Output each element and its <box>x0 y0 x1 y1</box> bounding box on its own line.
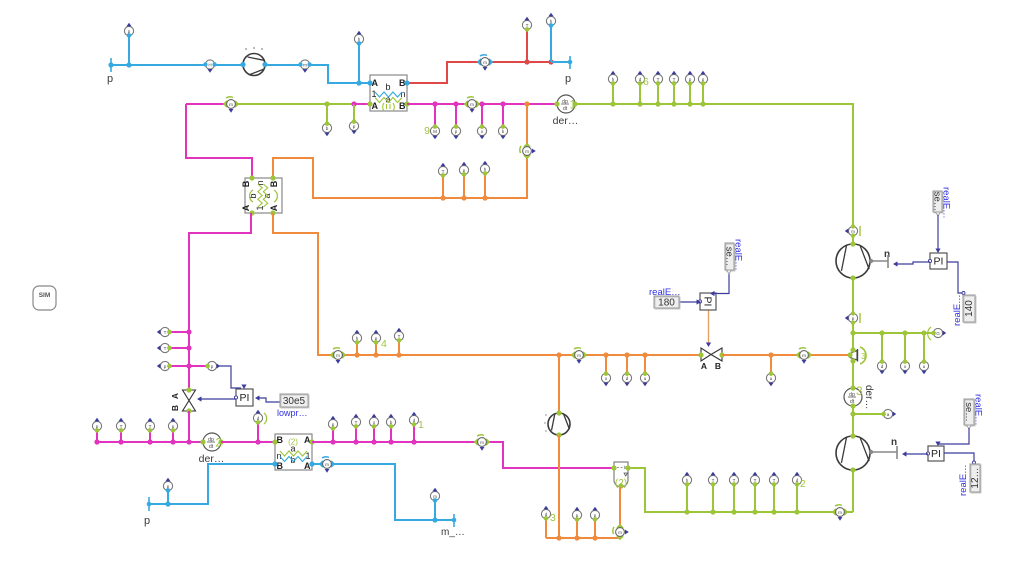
svg-text:m: m <box>838 510 842 515</box>
wire green stub up x613 <box>612 84 614 104</box>
wire orange stub 771 <box>770 355 772 373</box>
sensor 414 <box>409 412 418 427</box>
wire magenta stub s11 <box>481 104 483 126</box>
flow sensor F10 <box>613 524 629 540</box>
sensor orange up 376 <box>371 330 380 345</box>
svg-text:realE…: realE… <box>649 287 681 298</box>
signal wire se3 to PI3 <box>938 428 969 444</box>
sensor 771 <box>766 371 775 386</box>
wire orange pump P4 down <box>558 435 560 538</box>
svg-text:A: A <box>241 204 251 211</box>
svg-text:3: 3 <box>856 384 863 398</box>
flow sensor F8 <box>474 435 490 451</box>
signal wire se1 to PI2 <box>937 215 939 250</box>
sensor 258 <box>253 410 262 425</box>
svg-text:H: H <box>208 63 211 68</box>
svg-text:m: m <box>229 102 233 107</box>
signal wire PI2 to pump P2 <box>896 262 930 264</box>
svg-text:2: 2 <box>800 478 806 490</box>
svg-text:se…: se… <box>963 402 974 422</box>
wire red HX1 outlet <box>407 62 551 83</box>
wire magenta stub x356 <box>355 427 357 442</box>
sensor orange up 357 <box>352 330 361 345</box>
flow sensor F4 <box>520 143 536 159</box>
wire green stub 512 x687 <box>686 485 688 512</box>
sensor hx2 333 <box>328 416 337 431</box>
wire orange stub up x399 <box>398 341 400 355</box>
flow sensor F2 <box>223 97 239 113</box>
pump P3 shaft n <box>870 451 897 453</box>
source block 12 <box>970 464 981 493</box>
sensor green top 703 <box>698 71 707 86</box>
sensor orange down 606 <box>601 371 610 386</box>
signal wire 140 to PI2 <box>947 262 962 293</box>
svg-text:a: a <box>290 444 295 454</box>
svg-text:1: 1 <box>372 89 377 99</box>
pump P2 shaft n <box>870 260 888 262</box>
sensor 333 924 <box>919 359 928 374</box>
svg-text:1: 1 <box>418 419 424 431</box>
svg-text:d: d <box>626 376 629 381</box>
sensor 512 797 <box>792 472 801 487</box>
sensor 539 577 <box>572 507 581 522</box>
flow sensor F3 <box>464 97 480 113</box>
svg-text:SIM: SIM <box>39 292 51 299</box>
tank T1 <box>611 462 630 489</box>
svg-text:m: m <box>336 353 340 358</box>
svg-text:realE…: realE… <box>958 464 969 496</box>
heat-exchanger HX2 <box>272 434 314 471</box>
sensor inline below P2 <box>845 311 858 325</box>
svg-text:realE…: realE… <box>952 294 963 326</box>
signal wire 180 to PI-V2 <box>679 301 698 303</box>
wire cyan sensor stub <box>128 36 130 65</box>
wire magenta stub x391 <box>390 427 392 442</box>
sensor 512 713 <box>708 472 717 487</box>
source block se3 <box>963 399 975 426</box>
wire magenta bottom left <box>97 441 203 443</box>
derivative der2 <box>199 433 225 465</box>
svg-text:B: B <box>277 461 284 471</box>
svg-text:T: T <box>164 330 167 335</box>
svg-text:d: d <box>881 364 884 369</box>
svg-text:m: m <box>851 229 855 234</box>
wire orange stub 539 x595 <box>594 520 596 538</box>
wire green stub 333 x882 <box>881 333 883 361</box>
wire green stub der3 <box>853 413 884 415</box>
wire magenta stub s12 <box>502 104 504 126</box>
signal wire sensor to PI1 <box>217 366 241 388</box>
svg-text:M: M <box>433 129 437 134</box>
sensor 512 774 <box>769 472 778 487</box>
valve V1 <box>170 387 196 413</box>
svg-text:realE…: realE… <box>973 394 984 426</box>
source block 180 <box>654 296 680 309</box>
pump <box>836 241 870 280</box>
svg-text:m: m <box>802 353 806 358</box>
sensor 512 687 <box>682 472 691 487</box>
svg-text:der…: der… <box>553 115 579 127</box>
sensor orange 443 <box>438 163 447 178</box>
source block 30e5 <box>280 394 309 408</box>
svg-text:PI: PI <box>240 392 250 404</box>
wire magenta stub left y332 <box>171 331 189 333</box>
wire green stub 333 x924 <box>923 333 925 361</box>
PI controller PI2 <box>928 253 947 269</box>
valve V2 <box>698 348 724 371</box>
derivative der3 <box>844 384 874 409</box>
svg-text:140: 140 <box>964 300 975 317</box>
wire cyan to boundary p2 <box>551 61 570 63</box>
wire magenta from riser to flow sensor <box>186 103 231 105</box>
svg-text:4: 4 <box>381 338 387 350</box>
svg-text:p: p <box>565 73 571 85</box>
signal wire 30e5 to PI1 <box>257 398 280 402</box>
svg-text:p: p <box>455 129 458 134</box>
svg-text:p: p <box>852 316 855 321</box>
wire green sensor stub a <box>326 104 328 123</box>
wire green to HX1 <box>231 103 354 105</box>
svg-text:B: B <box>170 405 180 411</box>
sensor 546 <box>541 506 550 521</box>
svg-text:m: m <box>577 353 581 358</box>
pump <box>548 410 570 437</box>
sensor orange down 627 <box>622 371 631 386</box>
wire orange stub 539 x577 <box>576 520 578 538</box>
wire orange stub x443 <box>442 176 444 198</box>
wire magenta stub x374 <box>373 427 375 442</box>
sensor green top 658 <box>653 71 662 86</box>
wire magenta HX2 to tank <box>312 442 613 468</box>
flow sensor F6 <box>571 348 587 364</box>
sensor left 348 <box>157 343 172 352</box>
node p2 boundary <box>569 56 571 69</box>
sensor p <box>349 119 358 134</box>
wire green stub 512 x774 <box>773 485 775 512</box>
sensor 435 <box>430 488 439 503</box>
svg-text:G: G <box>936 331 940 336</box>
svg-text:m_…: m_… <box>441 527 465 538</box>
flow sensor F7 <box>796 348 812 364</box>
svg-text:p: p <box>164 364 167 369</box>
sensor orange up 399 <box>394 328 403 343</box>
wire green der1 to pump P2 <box>575 104 853 244</box>
signal wire 12 to PI3 <box>944 453 974 461</box>
source block 140 <box>963 295 976 323</box>
wire cyan sensor stub 2 <box>358 44 360 83</box>
svg-text:dt: dt <box>563 106 568 112</box>
svg-text:A: A <box>170 393 180 399</box>
wire magenta stub right y366 <box>189 365 207 367</box>
svg-text:u: u <box>923 364 926 369</box>
svg-text:m: m <box>470 102 474 107</box>
svg-text:b: b <box>326 126 329 131</box>
sensor 333 905 <box>900 359 909 374</box>
wire magenta HX3 to valve V1 <box>189 213 251 390</box>
svg-text:T: T <box>164 346 167 351</box>
svg-text:m: m <box>325 462 329 467</box>
svg-text:m: m <box>525 149 529 154</box>
sensor hx2 391 <box>386 414 395 429</box>
wire green stub up x690 <box>689 84 691 104</box>
wire magenta stub bl x150 <box>149 431 151 442</box>
wire cyan main top-left <box>111 65 370 83</box>
sensor 512 734 <box>729 472 738 487</box>
node p1 boundary <box>110 58 112 72</box>
pump <box>836 433 870 472</box>
signal wire se2 to PI-V2 <box>712 270 729 294</box>
svg-text:p: p <box>211 364 214 369</box>
wire magenta stub 414 <box>413 425 415 442</box>
wire orange stub down x606 <box>605 355 607 373</box>
wire orange stub down x645 <box>644 355 646 373</box>
wire magenta der2 to HX2 <box>221 441 275 443</box>
sensor b2 <box>498 124 507 139</box>
wire green P3 suction <box>852 470 854 512</box>
wire green stub 512 x797 <box>796 485 798 512</box>
svg-text:u: u <box>644 376 647 381</box>
wire magenta stub x333 <box>332 429 334 442</box>
wire green stub 512 x734 <box>733 485 735 512</box>
sensor 539 595 <box>590 507 599 522</box>
wire orange stub down x627 <box>626 355 628 373</box>
flow sensor F1 <box>477 55 493 71</box>
mixer J1 <box>847 347 866 364</box>
sensor left 366 <box>157 361 172 370</box>
wire magenta stub bl x121 <box>120 431 122 442</box>
wire cyan HX2 to boundary p3 <box>149 464 275 504</box>
svg-text:n: n <box>891 437 897 448</box>
wire cyan sensor stub 3 <box>550 25 552 62</box>
sensor green top 640 <box>635 71 644 86</box>
wire orange stub end <box>545 519 547 538</box>
sensor bottom-left 150 <box>145 418 154 433</box>
svg-text:der…: der… <box>863 385 874 409</box>
sensor orange down 645 <box>640 371 649 386</box>
wire orange valve line to pump P4 <box>558 355 560 413</box>
sensor 512 755 <box>750 472 759 487</box>
svg-text:A: A <box>372 101 379 111</box>
wire magenta stub bl x97 <box>96 431 98 442</box>
node m_flow boundary <box>453 514 455 527</box>
PI controller PI3 <box>926 446 944 461</box>
svg-text:B: B <box>277 435 284 445</box>
sensor end 333 <box>931 328 946 337</box>
sensor orange 464 <box>459 162 468 177</box>
signal wire PI-V2 stem <box>708 310 710 343</box>
sensor x <box>477 124 486 139</box>
sensor orange 485 <box>480 161 489 176</box>
wire green stub 333 x905 <box>904 333 906 361</box>
wire magenta stub left y366 <box>171 365 189 367</box>
sensor left 332 <box>157 327 172 336</box>
svg-text:3: 3 <box>861 352 866 361</box>
wire magenta HX1 outlet to der1 <box>407 103 557 105</box>
source block se1 <box>932 191 944 213</box>
sensor hx2 374 <box>369 414 378 429</box>
derivative der1 <box>553 95 579 127</box>
wire green sensor stub b <box>353 104 355 121</box>
sensor bottom-left 121 <box>116 418 125 433</box>
svg-text:lowpr…: lowpr… <box>277 408 308 418</box>
signal wire PI3 to pump P3 <box>905 453 928 455</box>
svg-text:B: B <box>269 180 279 187</box>
wire cyan stub 168 <box>167 491 169 504</box>
svg-text:6: 6 <box>643 76 649 88</box>
svg-text:PI: PI <box>702 297 714 307</box>
wire magenta into HX1 port A <box>354 103 370 105</box>
PI controller PI-V2 <box>698 293 716 310</box>
svg-text:m: m <box>618 530 622 535</box>
svg-text:30e5: 30e5 <box>283 396 306 407</box>
heat-exchanger HX1 <box>367 75 409 111</box>
svg-text:m: m <box>480 440 484 445</box>
sensor green top 613 <box>608 71 617 86</box>
svg-text:B: B <box>241 180 251 187</box>
wire green branch 333 <box>853 332 934 334</box>
wire cyan stub 435 <box>434 501 436 520</box>
sensor p2 <box>451 124 460 139</box>
wire green stub 512 x713 <box>712 485 714 512</box>
wire green stub 512 x755 <box>754 485 756 512</box>
svg-text:realE…: realE… <box>733 239 744 271</box>
sensor b <box>322 121 331 136</box>
sensor temperature red line <box>522 17 531 32</box>
sensor at der3 <box>881 409 896 418</box>
flow sensor F9 <box>832 505 848 521</box>
sensor bottom-left 97 <box>92 418 101 433</box>
flow sensor F11 <box>319 457 335 473</box>
svg-text:n: n <box>277 451 282 461</box>
svg-text:realE…: realE… <box>941 187 952 219</box>
wire green stub up x703 <box>702 84 704 104</box>
svg-text:A: A <box>269 204 279 211</box>
wire orange der-loop to HX3 <box>273 104 527 198</box>
svg-text:12…: 12… <box>970 467 981 488</box>
wire orange stub x485 <box>484 174 486 198</box>
svg-text:PI: PI <box>934 256 944 268</box>
sensor inline above P2 <box>845 224 858 238</box>
wire magenta stub s9 <box>434 104 436 126</box>
wire green stub up x640 <box>639 84 641 104</box>
wire green mixer to pump P3 <box>852 361 854 436</box>
pump <box>240 54 267 76</box>
svg-text:p: p <box>144 515 150 527</box>
wire magenta stub left y348 <box>171 347 189 349</box>
svg-text:p: p <box>107 73 113 85</box>
wire green P2 to mixer <box>852 278 854 350</box>
wire orange valve V2 to mixer <box>722 354 849 356</box>
svg-text:9: 9 <box>424 125 430 137</box>
wire magenta valve V1 outlet <box>188 411 190 442</box>
svg-text:m: m <box>303 63 307 68</box>
sensor pressure to PI1 <box>205 361 220 370</box>
svg-text:b: b <box>502 129 505 134</box>
wire cyan HX2 to boundary m_flow <box>312 464 454 520</box>
PI controller PI1 <box>234 389 253 406</box>
sensor inline mass-flow <box>298 60 312 73</box>
wire green stub up x674 <box>673 84 675 104</box>
svg-text:A: A <box>701 361 707 371</box>
source block se2 <box>724 243 736 271</box>
svg-text:180: 180 <box>658 298 675 309</box>
wire green tank to P3 <box>628 468 853 512</box>
svg-text:dt: dt <box>209 444 214 450</box>
sensor enthalpy before HX1 <box>354 31 363 46</box>
svg-text:B: B <box>715 361 721 371</box>
svg-text:n: n <box>400 89 405 99</box>
sensor bottom-left 173 <box>168 418 177 433</box>
wire orange stub up x357 <box>356 343 358 355</box>
svg-text:u: u <box>770 376 773 381</box>
wire magenta riser to HX3 <box>186 104 252 178</box>
svg-text:PI: PI <box>931 448 941 460</box>
sensor 9 <box>430 124 439 139</box>
heat-exchanger HX3 (rotated) <box>241 175 282 215</box>
sensor 168 <box>163 478 172 493</box>
svg-text:p: p <box>353 124 356 129</box>
svg-text:n: n <box>884 249 890 260</box>
node p3 boundary <box>148 497 150 511</box>
wire magenta stub bl x173 <box>172 431 174 442</box>
wire orange tank bottom <box>546 487 620 538</box>
wire magenta stub s10 <box>455 104 457 126</box>
wire orange stub x464 <box>463 175 465 198</box>
wire green stub up x658 <box>657 84 659 104</box>
svg-text:b: b <box>385 82 390 92</box>
sensor enthalpy at p2 <box>546 13 555 28</box>
wire orange HX3 to valve V2 <box>273 213 701 355</box>
wire orange stub up x376 <box>375 343 377 355</box>
sensor green top 674 <box>669 71 678 86</box>
sensor hx2 356 <box>351 414 360 429</box>
wire red sensor stub <box>526 29 528 62</box>
sensor inline specific-enthalpy <box>203 60 217 73</box>
block SIM <box>33 286 56 310</box>
svg-text:1: 1 <box>305 451 310 461</box>
sensor 333 882 <box>877 359 886 374</box>
signal wire PI1 to valve V1 <box>200 398 236 400</box>
sensor pressure top-left <box>124 23 133 38</box>
svg-text:a: a <box>887 412 890 417</box>
svg-text:m: m <box>483 60 487 65</box>
sensor green top 690 <box>685 71 694 86</box>
svg-text:3: 3 <box>550 512 556 524</box>
wire magenta stub 258 <box>257 423 259 442</box>
flow sensor F5 <box>330 348 346 364</box>
